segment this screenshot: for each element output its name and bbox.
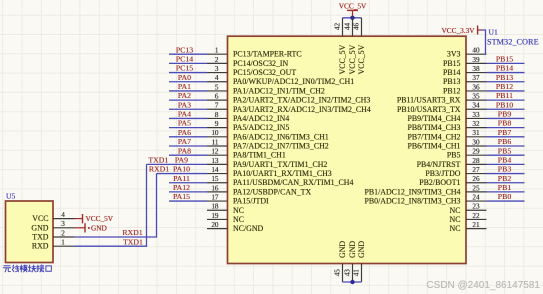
svg-text:PA3: PA3: [178, 100, 191, 109]
svg-text:17: 17: [211, 193, 219, 201]
svg-text:PB1: PB1: [498, 183, 512, 192]
net label PB11: [496, 91, 513, 100]
svg-text:44: 44: [343, 23, 351, 31]
net label PA15: [173, 192, 190, 201]
U5 pin 1: [53, 245, 75, 247]
svg-text:43: 43: [343, 269, 351, 277]
svg-text:29: 29: [472, 148, 480, 156]
pin 33: [466, 117, 487, 119]
pin number 40: [472, 47, 480, 55]
svg-text:1: 1: [61, 239, 65, 247]
net label PA4: [178, 110, 191, 119]
svg-text:31: 31: [472, 129, 480, 137]
wire net PB5: [487, 154, 525, 156]
pin name PB15: [443, 59, 461, 68]
pin name VCC_5V (pin 42): [338, 44, 347, 74]
pin name VCC_5V (pin 44): [348, 44, 357, 74]
pin name PB0/ADC12_IN8/TIM3_CH3: [364, 197, 460, 206]
pin number 33: [472, 111, 480, 119]
pin number 45: [333, 269, 341, 277]
wire net PA5: [169, 127, 207, 129]
pin 43: [352, 264, 354, 283]
net label RXD1 (U5 side): [122, 228, 142, 237]
svg-text:PA2: PA2: [178, 91, 191, 100]
svg-text:TXD1: TXD1: [148, 155, 168, 164]
pin number 16: [211, 184, 219, 192]
svg-text:PB7/TIM4_CH2: PB7/TIM4_CH2: [407, 132, 460, 141]
svg-text:PB5: PB5: [447, 151, 461, 160]
svg-text:PB11: PB11: [496, 91, 513, 100]
svg-text:3: 3: [61, 220, 65, 228]
pin 9: [207, 127, 228, 129]
svg-text:PA10/UART1_RX/TIM1_CH3: PA10/UART1_RX/TIM1_CH3: [233, 169, 332, 178]
svg-text:VCC_5V: VCC_5V: [357, 44, 366, 74]
svg-text:30: 30: [472, 138, 480, 146]
svg-text:U1: U1: [489, 28, 498, 37]
pin number 17: [211, 193, 219, 201]
svg-text:PA10: PA10: [173, 165, 190, 174]
U5 pin name VCC: [32, 214, 48, 223]
svg-text:PA2/UART2_TX/ADC12_IN2/TIM2_CH: PA2/UART2_TX/ADC12_IN2/TIM2_CH3: [233, 96, 370, 105]
U5 pin name RXD: [32, 242, 49, 251]
svg-text:PB8: PB8: [498, 119, 512, 128]
net label PA10: [173, 165, 190, 174]
svg-text:PB15: PB15: [496, 54, 513, 63]
net label PB13: [496, 73, 513, 82]
net label PB1: [498, 183, 512, 192]
svg-text:PB12: PB12: [496, 82, 513, 91]
wire net PC15: [169, 72, 207, 74]
pin 36: [466, 90, 487, 92]
svg-text:PA8: PA8: [178, 146, 191, 155]
pin name PA12/USBDP/CAN_TX: [233, 187, 311, 196]
pin number 7: [215, 102, 219, 110]
svg-text:37: 37: [472, 74, 480, 82]
wire net PC14: [169, 62, 207, 64]
pin number 8: [215, 111, 219, 119]
net label PB7: [498, 128, 512, 137]
svg-text:45: 45: [333, 269, 341, 277]
pin name PB6/TIM4_CH1: [407, 142, 460, 151]
pin name PB13: [443, 77, 461, 86]
svg-text:VCC_5V: VCC_5V: [348, 44, 357, 74]
svg-text:GND: GND: [91, 223, 107, 232]
U5 pin name TXD: [32, 233, 49, 242]
pin number 11: [212, 138, 219, 146]
net label PA3: [178, 100, 191, 109]
wire net PA9: [147, 163, 208, 165]
svg-text:PC14: PC14: [176, 54, 193, 63]
wire net PA10: [157, 173, 208, 175]
net label PA11: [173, 174, 190, 183]
svg-text:21: 21: [472, 221, 480, 229]
svg-text:VCC: VCC: [32, 214, 48, 223]
svg-text:PB9/TIM4_CH4: PB9/TIM4_CH4: [407, 114, 460, 123]
pin number 27: [472, 166, 480, 174]
pin 22: [466, 218, 487, 220]
svg-text:RXD: RXD: [32, 242, 49, 251]
net label PA5: [178, 119, 191, 128]
svg-text:PB4: PB4: [498, 155, 512, 164]
net label TXD1 (U5 side): [123, 237, 143, 246]
pin 45: [342, 264, 344, 283]
svg-text:28: 28: [472, 157, 480, 165]
net label PA0: [178, 73, 191, 82]
pin number 26: [472, 175, 480, 183]
svg-text:24: 24: [472, 193, 480, 201]
U5 pin 2: [53, 236, 75, 238]
wire net PB11: [487, 99, 525, 101]
net label PC13: [176, 45, 193, 54]
svg-text:9: 9: [215, 120, 219, 128]
pin name PB9/TIM4_CH4: [407, 114, 460, 123]
pin number 19: [211, 212, 219, 220]
junction VCC_5V: [350, 16, 354, 20]
pin 4: [207, 81, 228, 83]
pin 37: [466, 81, 487, 83]
svg-text:34: 34: [472, 102, 480, 110]
pin number 38: [472, 65, 480, 73]
svg-text:CSDN @2401_86147581: CSDN @2401_86147581: [426, 280, 540, 291]
wire net PA6: [169, 136, 207, 138]
svg-text:PA5: PA5: [178, 119, 191, 128]
pin 40: [466, 53, 487, 55]
U5 pin 3: [53, 227, 75, 229]
pin name GND (pin 41): [357, 241, 366, 258]
pin 12: [207, 154, 228, 156]
pin name PA2/UART2_TX/ADC12_IN2/TIM2_CH3: [233, 96, 370, 105]
svg-text:PB12: PB12: [443, 86, 461, 95]
svg-text:5: 5: [215, 83, 219, 91]
pin number 20: [211, 221, 219, 229]
net label PC14: [176, 54, 193, 63]
svg-text:PB11/USART3_RX: PB11/USART3_RX: [397, 96, 461, 105]
pin number 34: [472, 102, 480, 110]
pin number 39: [472, 56, 480, 64]
pin number 25: [472, 184, 480, 192]
svg-text:38: 38: [472, 65, 480, 73]
svg-text:PA9: PA9: [175, 155, 188, 164]
wire net PB12: [487, 90, 525, 92]
pin 23: [466, 209, 487, 211]
pin 38: [466, 72, 487, 74]
wire net PB13: [487, 81, 525, 83]
wire VCC_3.3V to pin 40: [482, 30, 486, 54]
svg-text:18: 18: [211, 203, 219, 211]
svg-text:PA11/USBDM/CAN_RX/TIM1_CH4: PA11/USBDM/CAN_RX/TIM1_CH4: [233, 178, 353, 187]
pin number 4: [215, 74, 219, 82]
svg-text:PB7: PB7: [498, 128, 512, 137]
watermark CSDN @2401_86147581: [426, 280, 540, 291]
net label TXD1 (row PA9): [148, 155, 168, 164]
svg-text:STM32_CORE: STM32_CORE: [487, 38, 539, 47]
svg-text:7: 7: [215, 102, 219, 110]
svg-text:PA0: PA0: [178, 73, 191, 82]
svg-text:6: 6: [215, 93, 219, 101]
wire net PB4: [487, 163, 525, 165]
pin 19: [207, 218, 228, 220]
wire VCC_5V rail: [343, 17, 362, 19]
svg-text:PB13: PB13: [496, 73, 513, 82]
svg-text:PB14: PB14: [443, 68, 461, 77]
wire net PB15: [487, 62, 525, 64]
junction GND: [350, 280, 354, 284]
svg-text:NC: NC: [450, 215, 461, 224]
pin name PB5: [447, 151, 461, 160]
net label PB9: [498, 110, 512, 119]
pin number 15: [211, 175, 219, 183]
pin name PA4/ADC12_IN4: [233, 114, 289, 123]
pin name PA5/ADC12_IN5: [233, 123, 289, 132]
wire net PB14: [487, 72, 525, 74]
svg-text:PB4/NJTRST: PB4/NJTRST: [417, 160, 461, 169]
svg-text:41: 41: [352, 269, 360, 277]
net label PA8: [178, 146, 191, 155]
U5 pin 4: [53, 218, 75, 220]
svg-text:VCC_3.3V: VCC_3.3V: [441, 26, 475, 35]
wire net PB1: [487, 191, 525, 193]
svg-text:RXD1: RXD1: [122, 228, 142, 237]
pin number 41: [352, 269, 360, 277]
net label PA6: [178, 128, 191, 137]
pin name PA8/TIM1_CH1: [233, 151, 286, 160]
pin name PB2/BOOT1: [419, 178, 460, 187]
svg-text:PA9/UART1_TX/TIM1_CH2: PA9/UART1_TX/TIM1_CH2: [233, 160, 327, 169]
pin name PB7/TIM4_CH2: [407, 132, 460, 141]
net label PB15: [496, 54, 513, 63]
pin 28: [466, 163, 487, 165]
U5 pin number 1: [61, 239, 65, 247]
pin 35: [466, 99, 487, 101]
svg-text:PA8/TIM1_CH1: PA8/TIM1_CH1: [233, 151, 286, 160]
text 无线模块接口 (wireless module interface caption): [3, 265, 51, 272]
pin name VCC_5V (pin 46): [357, 44, 366, 74]
wire net PA4: [169, 117, 207, 119]
svg-text:4: 4: [61, 211, 65, 219]
pin number 10: [211, 129, 219, 137]
svg-text:PA4: PA4: [178, 110, 191, 119]
pin number 13: [211, 157, 219, 165]
svg-text:PB13: PB13: [443, 77, 461, 86]
wire net PB2: [487, 182, 525, 184]
pin 34: [466, 108, 487, 110]
power port VCC_3.3V: [441, 26, 481, 35]
connector U5 body: [6, 201, 54, 263]
pin number 9: [215, 120, 219, 128]
svg-text:26: 26: [472, 175, 480, 183]
power port VCC_5V (U5): [75, 214, 114, 223]
svg-text:PB9: PB9: [498, 110, 512, 119]
pin 29: [466, 154, 487, 156]
svg-text:46: 46: [352, 23, 360, 31]
pin name PA9/UART1_TX/TIM1_CH2: [233, 160, 327, 169]
pin number 6: [215, 93, 219, 101]
svg-text:PB6/TIM4_CH1: PB6/TIM4_CH1: [407, 142, 460, 151]
pin 7: [207, 108, 228, 110]
pin number 18: [211, 203, 219, 211]
pin name PB10/USART3_TX: [397, 105, 461, 114]
svg-text:VCC_5V: VCC_5V: [338, 44, 347, 74]
svg-text:36: 36: [472, 83, 480, 91]
svg-text:40: 40: [472, 47, 480, 55]
net label PB2: [498, 174, 512, 183]
svg-text:RXD1: RXD1: [149, 165, 169, 174]
pin 3: [207, 72, 228, 74]
pin 42: [342, 18, 344, 36]
pin name PB14: [443, 68, 461, 77]
pin number 31: [472, 129, 480, 137]
wire net PA7: [169, 145, 207, 147]
svg-text:NC/GND: NC/GND: [233, 224, 264, 233]
svg-text:PB3: PB3: [498, 165, 512, 174]
pin 44: [352, 18, 354, 36]
svg-text:GND: GND: [348, 241, 357, 258]
pin 11: [207, 145, 228, 147]
designator U1: [489, 28, 498, 37]
pin name 3V3: [447, 50, 461, 59]
svg-text:13: 13: [211, 157, 219, 165]
wire net PC13: [169, 53, 207, 55]
svg-text:22: 22: [472, 212, 480, 220]
pin 31: [466, 136, 487, 138]
svg-text:VCC_5V: VCC_5V: [339, 1, 367, 10]
net label PB4: [498, 155, 512, 164]
pin number 32: [472, 120, 480, 128]
pin number 2: [215, 56, 219, 64]
svg-text:PB2/BOOT1: PB2/BOOT1: [419, 178, 460, 187]
pin number 5: [215, 83, 219, 91]
pin name PA1/ADC12_IN1/TIM_CH2: [233, 86, 325, 95]
pin 1: [207, 53, 228, 55]
svg-text:PB1/ADC12_IN9/TIM3_CH4: PB1/ADC12_IN9/TIM3_CH4: [364, 187, 460, 196]
wire net PA12: [169, 191, 207, 193]
svg-text:2: 2: [61, 229, 65, 237]
svg-text:GND: GND: [31, 223, 48, 232]
wire net PA3: [169, 108, 207, 110]
pin number 24: [472, 193, 480, 201]
pin name NC/GND: [233, 224, 264, 233]
svg-text:23: 23: [472, 203, 480, 211]
pin name NC: [233, 206, 244, 215]
svg-text:PB5: PB5: [498, 146, 512, 155]
svg-text:39: 39: [472, 56, 480, 64]
svg-text:TXD: TXD: [32, 233, 49, 242]
pin name NC: [233, 215, 244, 224]
pin name PA11/USBDM/CAN_RX/TIM1_CH4: [233, 178, 353, 187]
pin name PC14/OSC32_IN: [233, 59, 289, 68]
svg-text:PA6: PA6: [178, 128, 191, 137]
svg-text:PC15: PC15: [176, 64, 193, 73]
svg-text:10: 10: [211, 129, 219, 137]
wire net TXD1 (U5 RXD to PA9): [75, 164, 147, 246]
svg-text:PB0/ADC12_IN8/TIM3_CH3: PB0/ADC12_IN8/TIM3_CH3: [364, 197, 460, 206]
pin name PB8/TIM4_CH3: [407, 123, 460, 132]
pin number 3: [215, 65, 219, 73]
svg-text:PA6/ADC12_IN6/TIM3_CH1: PA6/ADC12_IN6/TIM3_CH1: [233, 132, 329, 141]
net label PB10: [496, 100, 513, 109]
svg-text:PA12/USBDP/CAN_TX: PA12/USBDP/CAN_TX: [233, 187, 311, 196]
svg-text:12: 12: [211, 148, 219, 156]
wire GND rail: [343, 281, 362, 283]
wire net PB10: [487, 108, 525, 110]
svg-text:2: 2: [215, 56, 219, 64]
IC U1 STM32_CORE body: [228, 36, 467, 263]
svg-text:PA5/ADC12_IN5: PA5/ADC12_IN5: [233, 123, 289, 132]
wire net PB6: [487, 145, 525, 147]
pin 6: [207, 99, 228, 101]
svg-text:42: 42: [333, 23, 341, 31]
pin number 1: [215, 47, 219, 55]
net label PA7: [178, 137, 191, 146]
U5 pin number 3: [61, 220, 65, 228]
svg-text:PB10: PB10: [496, 100, 513, 109]
svg-text:20: 20: [211, 221, 219, 229]
svg-text:35: 35: [472, 93, 480, 101]
svg-text:PA12: PA12: [173, 183, 190, 192]
pin 26: [466, 182, 487, 184]
pin 27: [466, 173, 487, 175]
pin number 37: [472, 74, 480, 82]
svg-text:U5: U5: [6, 192, 15, 201]
pin 20: [207, 228, 228, 230]
net label PB6: [498, 137, 512, 146]
pin name NC: [450, 224, 461, 233]
wire net PA8: [169, 154, 207, 156]
svg-text:PA11: PA11: [173, 174, 190, 183]
net label PA2: [178, 91, 191, 100]
pin name PA0/WKUP/ADC12_IN0/TIM2_CH1: [233, 77, 354, 86]
pin 21: [466, 228, 487, 230]
net label PB12: [496, 82, 513, 91]
pin name NC: [450, 215, 461, 224]
svg-text:PA1: PA1: [178, 82, 191, 91]
wire net PB9: [487, 117, 525, 119]
pin 25: [466, 191, 487, 193]
pin name NC: [450, 206, 461, 215]
pin 10: [207, 136, 228, 138]
wire net RXD1 (U5 TXD to PA10): [75, 174, 157, 237]
pin 2: [207, 62, 228, 64]
pin name GND (pin 43): [348, 241, 357, 258]
svg-text:NC: NC: [233, 215, 244, 224]
power port VCC_5V (top): [339, 1, 367, 18]
svg-text:TXD1: TXD1: [123, 237, 143, 246]
svg-text:27: 27: [472, 166, 480, 174]
pin name PB12: [443, 86, 461, 95]
pin number 23: [472, 203, 480, 211]
net label PB5: [498, 146, 512, 155]
svg-text:PB14: PB14: [496, 64, 513, 73]
pin name PB1/ADC12_IN9/TIM3_CH4: [364, 187, 460, 196]
wire net PA11: [169, 182, 207, 184]
pin 13: [207, 163, 228, 165]
pin name GND (pin 45): [338, 241, 347, 258]
pin number 28: [472, 157, 480, 165]
svg-text:PA7: PA7: [178, 137, 191, 146]
svg-text:PC13/TAMPER-RTC: PC13/TAMPER-RTC: [233, 50, 302, 59]
pin number 42: [333, 23, 341, 31]
designator U5: [6, 192, 15, 201]
pin number 14: [211, 166, 219, 174]
pin number 46: [352, 23, 360, 31]
wire net PA2: [169, 99, 207, 101]
net label PB3: [498, 165, 512, 174]
svg-text:PA0/WKUP/ADC12_IN0/TIM2_CH1: PA0/WKUP/ADC12_IN0/TIM2_CH1: [233, 77, 354, 86]
net label PB14: [496, 64, 513, 73]
wire net PB8: [487, 127, 525, 129]
net label PC15: [176, 64, 193, 73]
pin name PB11/USART3_RX: [397, 96, 461, 105]
